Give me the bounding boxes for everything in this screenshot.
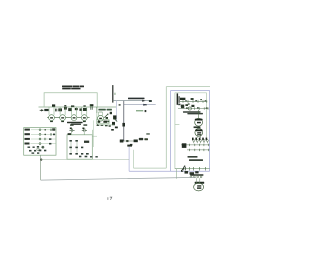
inner green shield box [175, 93, 207, 169]
component row mid y141 [120, 140, 138, 146]
row 2 [25, 133, 30, 135]
dark bus vertical [123, 101, 125, 142]
wire from node A [98, 124, 115, 126]
cluster R4 [79, 108, 82, 111]
detector text row [98, 109, 112, 111]
cluster R2 [58, 108, 62, 111]
wire link box top [91, 130, 93, 135]
blue shield box [129, 91, 210, 172]
inter-transistor label [194, 126, 201, 128]
wire T6 down [96, 113, 98, 120]
inter-circle stubs [47, 117, 90, 119]
output row y101.4 [180, 98, 207, 103]
dark mark at dash end [145, 110, 147, 112]
green dash under label [136, 110, 143, 112]
wire detector to tone board [92, 120, 94, 147]
faint blue vertical [115, 101, 117, 122]
p/n label [188, 156, 204, 161]
caps above middle box [69, 124, 87, 135]
cluster below row [185, 171, 189, 174]
shield stub bar [127, 145, 132, 147]
outer green shield box [134, 87, 211, 169]
blob on line T2 [64, 107, 67, 110]
volume takeoff arrow [104, 114, 108, 118]
output transistor Q8 [195, 129, 203, 137]
tick above T4 [83, 105, 85, 106]
middle box interior [69, 140, 89, 155]
small green box (filter) [97, 120, 110, 124]
node A junction dot [97, 124, 99, 126]
resistor stack below Q6 [97, 125, 111, 127]
transistor Q4 [81, 107, 87, 122]
transformer T6 [91, 105, 103, 113]
speaker label [195, 182, 205, 184]
title text [62, 86, 84, 90]
row 1 [25, 129, 30, 131]
wire shield stub green [133, 150, 135, 168]
tuner board box [44, 93, 97, 107]
cluster T4 [83, 108, 87, 111]
IFT5 label [90, 104, 94, 106]
output row y108.5 [178, 103, 209, 110]
dark cluster right of detector [106, 115, 118, 130]
test point vertical text [112, 85, 113, 103]
row 4 [25, 143, 30, 145]
audio takeoff wire [113, 100, 151, 102]
volume control row [175, 166, 210, 175]
wire shield stub blue [128, 147, 130, 172]
tick near TP [114, 93, 115, 95]
left board box [24, 128, 56, 156]
wire y159 [41, 158, 129, 160]
page number 17 [108, 197, 112, 200]
dark comp on box top edge [68, 133, 71, 135]
bias network rows [181, 143, 209, 151]
input cap cluster [44, 109, 48, 111]
TP text near bus bottom [139, 138, 143, 140]
transformer T5 [91, 106, 92, 109]
long bus wire [41, 177, 196, 180]
mid box bottom caps [79, 156, 98, 158]
transistor Q2 [60, 107, 66, 122]
IFT1 label [52, 104, 55, 106]
volume label + terminals [190, 174, 203, 178]
second takeoff wire [124, 104, 156, 106]
input arrow [40, 109, 44, 111]
text right of left box top [52, 128, 55, 130]
terminal circles row [193, 140, 209, 144]
arrow on second wire [143, 104, 146, 106]
wire link box right [92, 135, 97, 137]
cluster R3 [68, 108, 72, 111]
speaker [194, 178, 204, 191]
wire end text [149, 100, 152, 102]
tiny mark right of detector label [119, 104, 121, 105]
label under IF strip [67, 122, 83, 125]
leads below Q8 [197, 136, 200, 137]
arrow on audio wire [142, 100, 146, 102]
row 3 [25, 138, 30, 140]
transistor Q1 [49, 107, 55, 122]
output transistor Q7 [195, 110, 203, 126]
wire volume row to bus [175, 169, 177, 179]
left box rows [25, 129, 57, 154]
11 label [122, 123, 125, 127]
2 label [110, 112, 112, 114]
wire from left box bottom [40, 155, 42, 180]
IF signal line [39, 106, 117, 108]
small text below arrow [144, 104, 147, 105]
driver label text [183, 111, 203, 114]
small text left edge mid [146, 133, 150, 135]
middle board box [67, 135, 92, 159]
transistor Q3 [71, 107, 77, 121]
label above T3 [71, 105, 74, 107]
capacitor bars C2 [56, 109, 57, 112]
cluster [28, 146, 47, 154]
pot arrow [181, 166, 185, 172]
terminal strip EEEEE [192, 138, 207, 141]
detector transistor Q6 [98, 112, 104, 121]
audio label [128, 98, 145, 100]
blob T3 [75, 108, 78, 110]
vertical coil text [177, 93, 180, 104]
